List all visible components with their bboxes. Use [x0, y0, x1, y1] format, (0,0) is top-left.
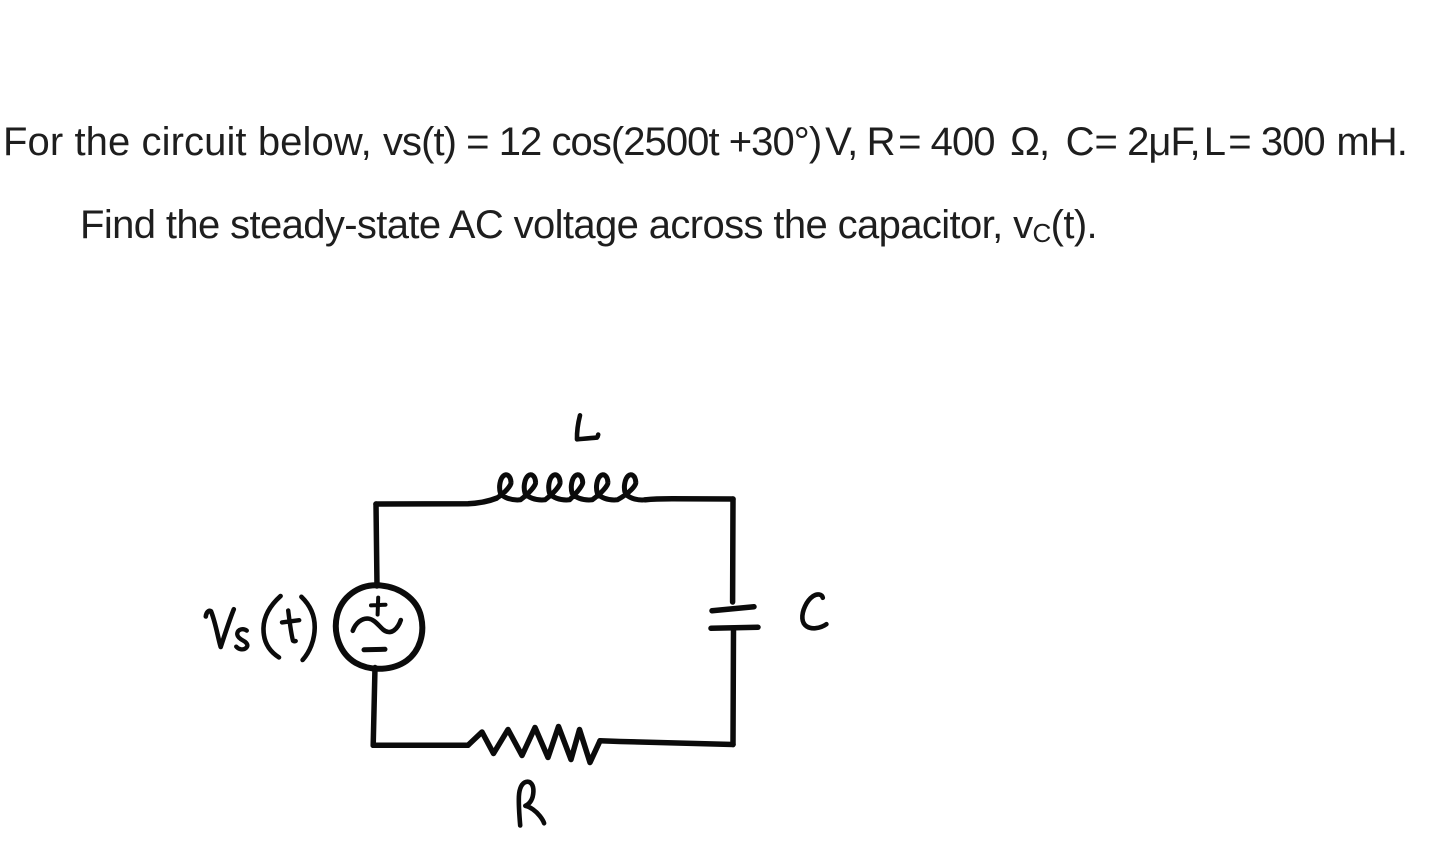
wire: top side with inductor entry, from top-left corner to coil [376, 498, 497, 504]
wire: left vertical upper (top-left corner to source top) [376, 504, 377, 586]
wire: right vertical lower (bottom-right corner to capacitor bottom plate) [730, 629, 736, 745]
+ polarity mark inside source [371, 598, 386, 615]
label Vs(t): open paren [263, 596, 280, 657]
label Vs(t): t stroke [282, 611, 299, 642]
inductor L coil [497, 475, 646, 500]
resistor R zigzag [468, 727, 600, 763]
label C (handwritten) right of capacitor [802, 594, 826, 628]
sine squiggle inside source [353, 619, 401, 633]
voltage source Vs circle [336, 585, 422, 669]
- polarity mark inside source [364, 647, 385, 653]
capacitor C top plate [712, 607, 754, 611]
wire: left vertical lower (source bottom to bottom-left corner) [373, 668, 375, 746]
wire: bottom left horizontal to resistor [373, 742, 468, 748]
label Vs(t): s subscript [236, 629, 247, 649]
wire: bottom right horizontal to bottom-right corner [600, 741, 733, 745]
problem statement line 1 [3, 122, 1407, 162]
label Vs(t): close paren [301, 597, 314, 660]
capacitor C bottom plate [711, 627, 758, 628]
problem statement line 2 [80, 205, 1097, 253]
wire: top right from coil to top-right corner [645, 499, 733, 500]
label R (handwritten) below resistor [519, 782, 544, 826]
label Vs(t): V stroke [206, 609, 234, 647]
wire: right vertical upper (top-right corner to capacitor top plate) [730, 499, 736, 602]
label L (handwritten) above inductor [577, 415, 598, 439]
